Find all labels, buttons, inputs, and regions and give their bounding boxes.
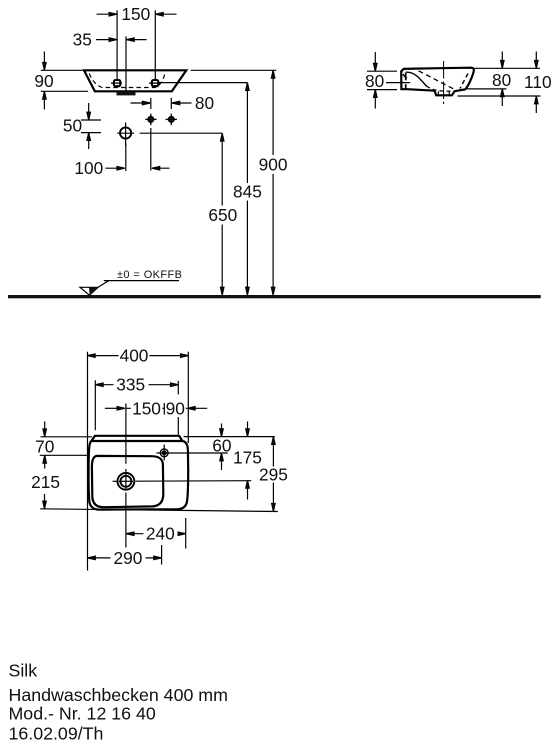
dim 400 (87, 346, 188, 571)
side hole level line (386, 82, 410, 84)
svg-text:80: 80 (365, 71, 384, 91)
svg-text:35: 35 (73, 30, 92, 50)
dim 240 (126, 518, 186, 549)
line hole level right (159, 82, 248, 84)
dim 35 (73, 30, 147, 50)
wall hole left (145, 114, 156, 125)
side drain walls (438, 91, 449, 95)
dim 80 side left (365, 52, 397, 109)
plan drain (113, 473, 135, 490)
svg-text:±0 = OKFFB: ±0 = OKFFB (117, 269, 182, 281)
dim 295 (259, 437, 288, 512)
dim 150 and 90 plan (105, 398, 207, 418)
faucet hole right front (149, 80, 160, 86)
dim 110 side (524, 52, 552, 114)
svg-text:Silk: Silk (9, 661, 38, 681)
svg-text:50: 50 (63, 116, 82, 136)
floor line (8, 295, 541, 298)
side outline (401, 68, 474, 96)
plan drain level line right (136, 480, 252, 483)
svg-text:100: 100 (74, 158, 103, 178)
plan bottom long line (40, 509, 278, 512)
svg-text:900: 900 (259, 155, 288, 175)
dim 50 (63, 103, 101, 149)
svg-text:295: 295 (259, 465, 288, 485)
svg-text:80: 80 (195, 93, 214, 113)
dim 650 vertical (208, 133, 237, 295)
plan bowl top line left (40, 454, 87, 456)
svg-text:175: 175 (233, 447, 262, 467)
dim 900 vertical (259, 70, 288, 295)
dim 335 (95, 375, 178, 435)
svg-text:90: 90 (34, 71, 53, 91)
dim 60 (212, 424, 231, 471)
plan platform (92, 436, 182, 441)
side wall hidden hole mark (403, 74, 407, 78)
svg-text:16.02.09/Th: 16.02.09/Th (9, 724, 104, 744)
side center line (443, 61, 445, 104)
drain circle front (117, 123, 134, 146)
plan top line left (41, 436, 93, 438)
svg-text:650: 650 (208, 205, 237, 225)
side right inner dashed (460, 74, 468, 89)
dim 215 (31, 472, 60, 509)
svg-text:60: 60 (212, 435, 231, 455)
extension line right hole (154, 10, 156, 79)
svg-text:80: 80 (492, 70, 511, 90)
svg-text:215: 215 (31, 472, 60, 492)
plan drain centerline vertical (125, 404, 127, 548)
dim 70 (35, 422, 54, 469)
dim 80 wall holes (131, 93, 215, 113)
side extension drain right (458, 95, 541, 97)
plan outer outline (89, 441, 189, 510)
dim 150 top (97, 4, 177, 24)
dim 90 left (34, 52, 88, 110)
svg-text:400: 400 (120, 346, 149, 366)
drain plug front (117, 92, 136, 96)
extension line left hole (116, 10, 118, 79)
plan inner bowl (92, 456, 163, 507)
side deck curve (406, 72, 427, 86)
dim 100 (74, 128, 169, 178)
title block text (9, 661, 228, 744)
side inner wall (405, 73, 407, 89)
svg-text:335: 335 (116, 375, 145, 395)
svg-text:110: 110 (524, 72, 552, 92)
dim 175 (233, 422, 262, 500)
plan top line right (184, 436, 275, 438)
dim 290 (88, 545, 162, 568)
svg-text:240: 240 (146, 524, 175, 544)
side bowl bottom dashed (427, 86, 452, 91)
line drain level right (140, 132, 223, 134)
extension line basin center (125, 36, 127, 91)
svg-text:150: 150 (121, 4, 150, 24)
plan faucet hole (157, 445, 228, 461)
svg-text:150: 150 (132, 398, 161, 418)
datum symbol (80, 269, 182, 295)
side extension bottom right (467, 88, 507, 90)
basin front outline (84, 70, 186, 91)
line basin top right (191, 69, 276, 71)
svg-text:Handwaschbecken 400 mm: Handwaschbecken 400 mm (9, 685, 228, 705)
faucet hole left front (111, 80, 122, 86)
side extension top right (475, 67, 541, 69)
basin front inner bowl dashed (89, 74, 165, 88)
svg-text:90: 90 (166, 398, 185, 418)
svg-text:Mod.- Nr. 12 16 40: Mod.- Nr. 12 16 40 (9, 704, 156, 724)
wall hole right (166, 114, 177, 125)
dim 80 side right (492, 52, 511, 107)
dim 845 vertical (233, 83, 262, 295)
svg-text:290: 290 (113, 548, 142, 568)
svg-text:845: 845 (233, 182, 262, 202)
side bowl dashed diagonal (419, 71, 455, 90)
svg-text:70: 70 (35, 436, 54, 456)
